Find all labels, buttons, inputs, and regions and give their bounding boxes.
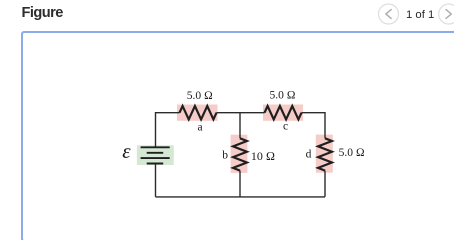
svg-text:c: c (283, 121, 288, 133)
svg-text:ε: ε (122, 139, 131, 163)
svg-text:10 Ω: 10 Ω (251, 149, 275, 163)
svg-text:5.0 Ω: 5.0 Ω (339, 147, 365, 159)
svg-text:b: b (222, 149, 228, 161)
svg-text:a: a (197, 121, 202, 133)
svg-text:5.0 Ω: 5.0 Ω (269, 90, 295, 102)
svg-text:5.0 Ω: 5.0 Ω (187, 90, 213, 102)
svg-text:d: d (306, 149, 312, 161)
